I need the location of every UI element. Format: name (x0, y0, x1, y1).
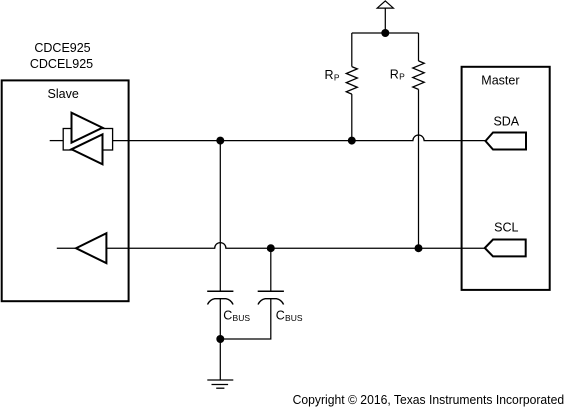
svg-text:CDCE925: CDCE925 (34, 41, 90, 55)
svg-text:Copyright © 2016, Texas Instru: Copyright © 2016, Texas Instruments Inco… (293, 393, 565, 407)
svg-text:SCL: SCL (494, 220, 518, 234)
svg-text:SDA: SDA (493, 115, 519, 129)
svg-text:Master: Master (481, 74, 519, 88)
svg-text:CDCEL925: CDCEL925 (30, 57, 93, 71)
svg-text:Slave: Slave (48, 87, 79, 101)
